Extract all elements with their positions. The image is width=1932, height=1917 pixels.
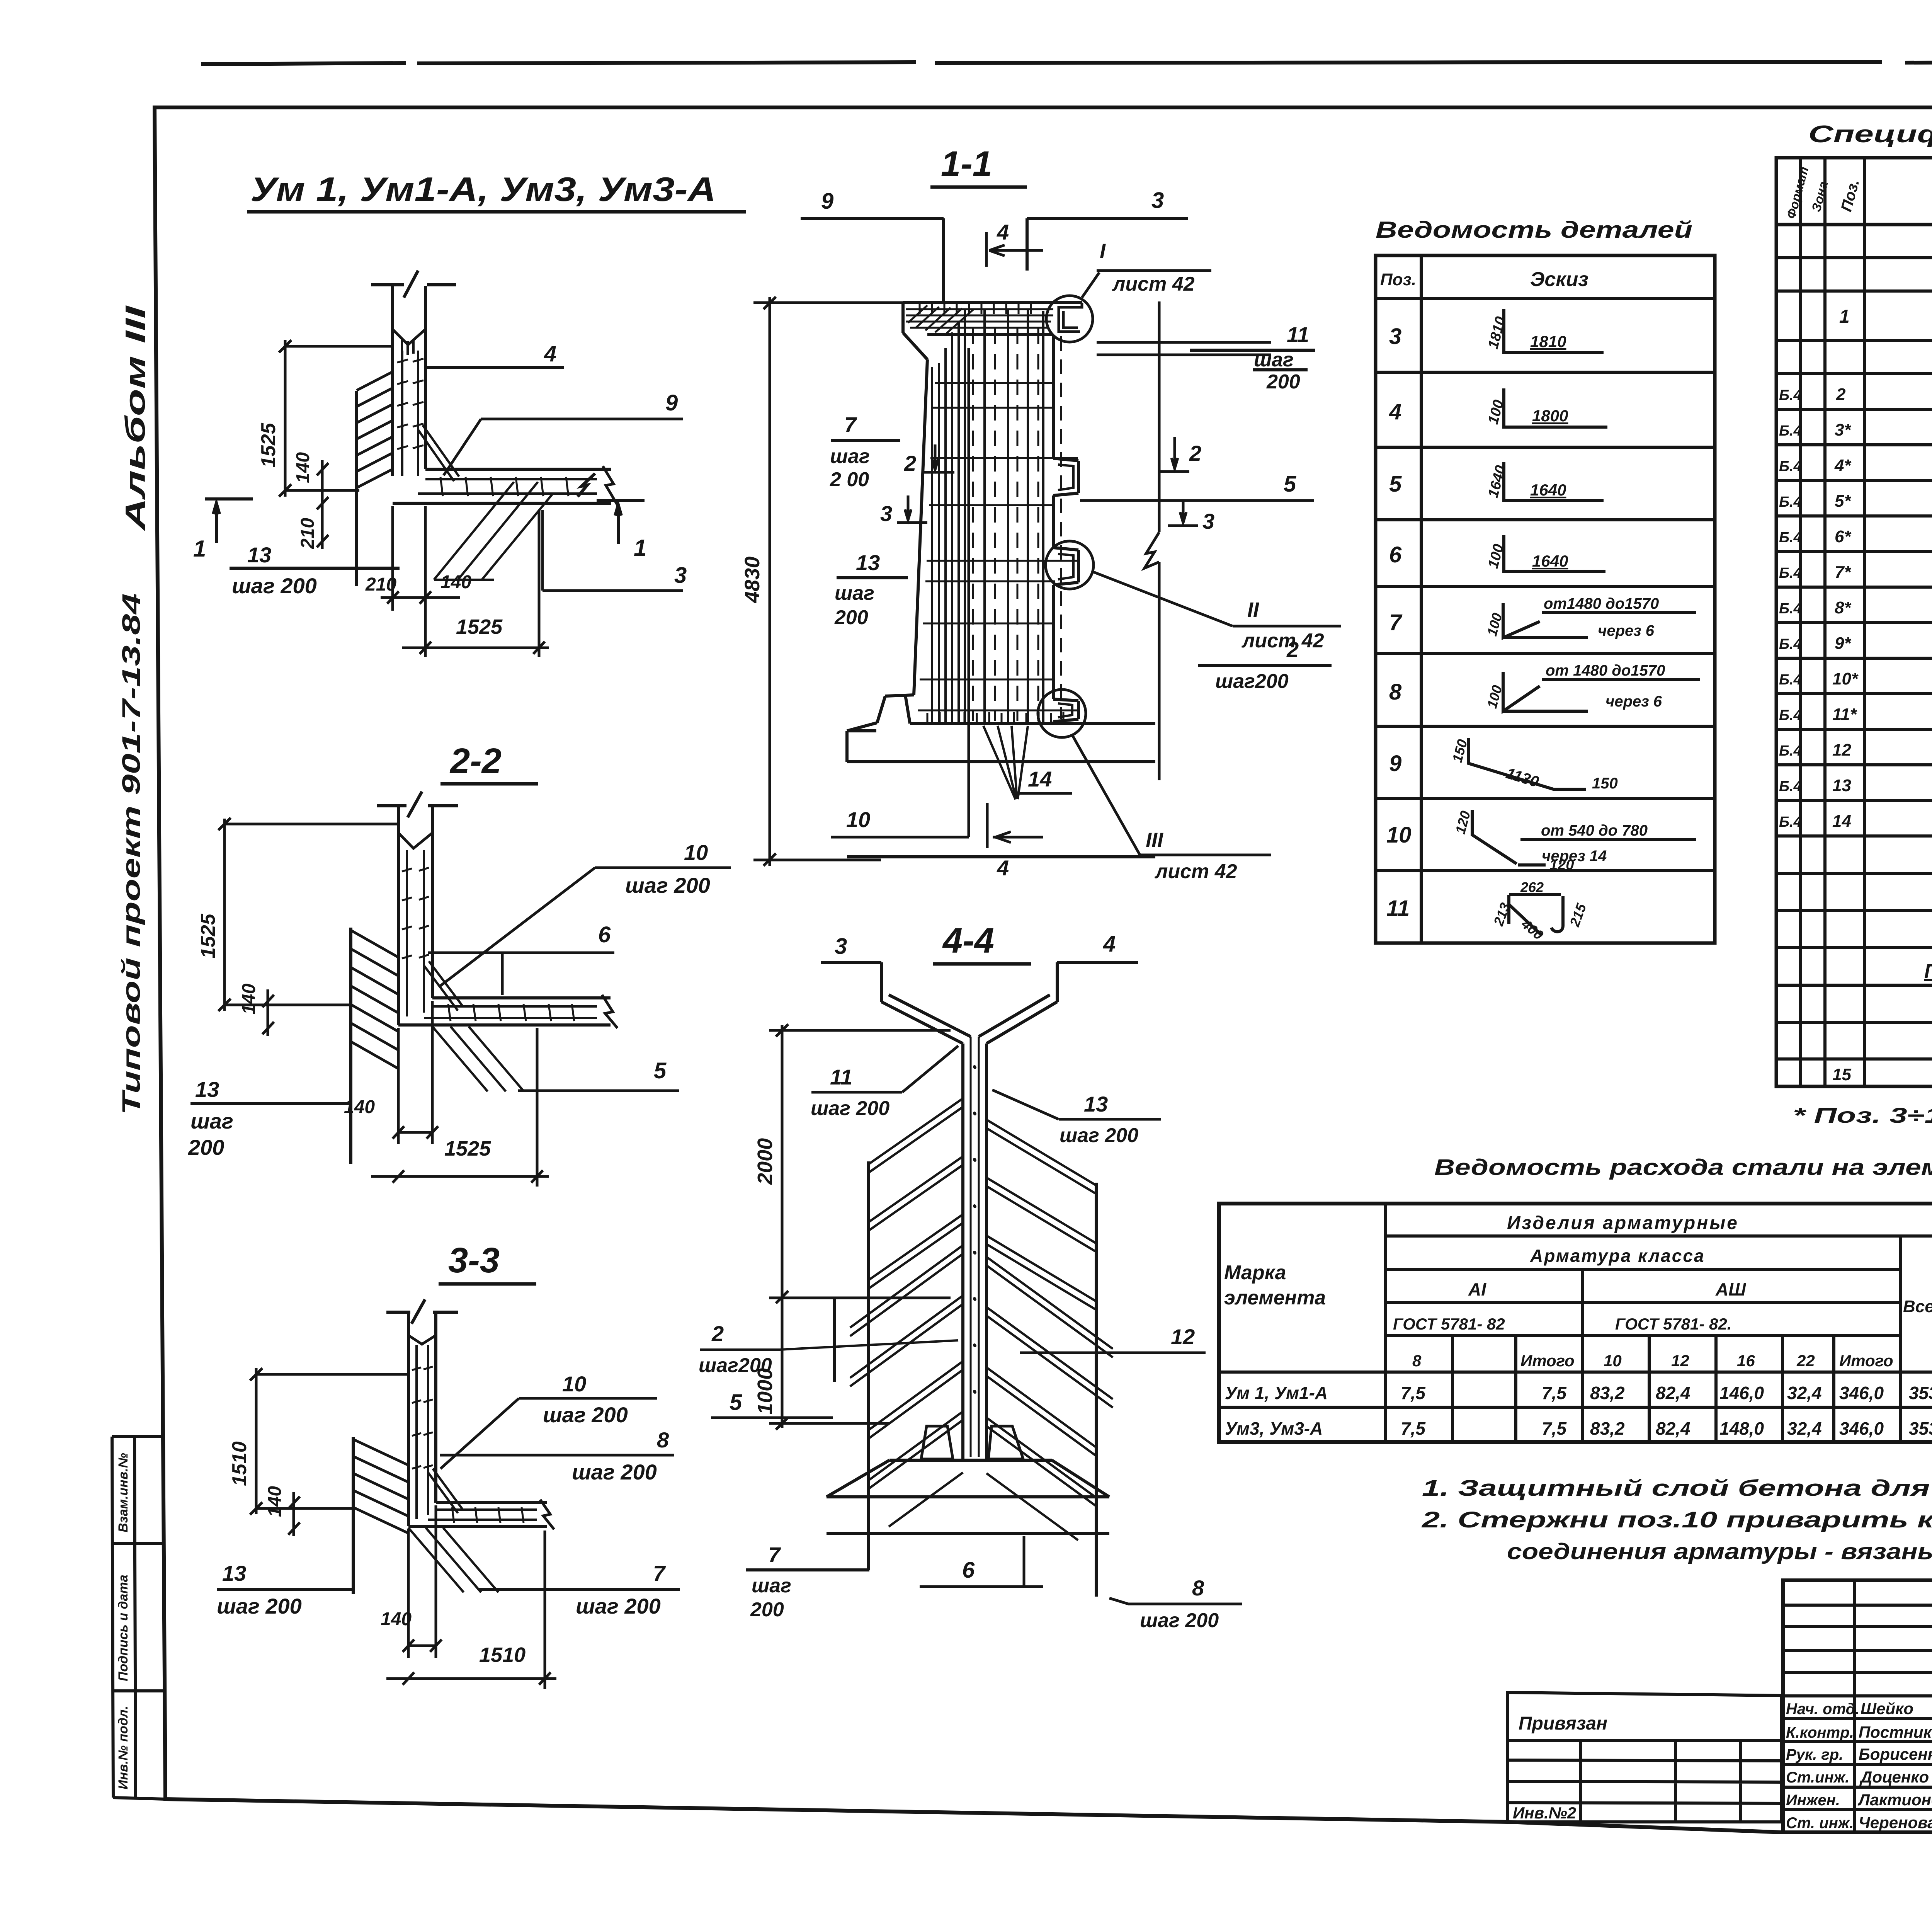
svg-text:шаг 200: шаг 200 xyxy=(543,1403,628,1427)
svg-text:через 6: через 6 xyxy=(1598,622,1655,639)
svg-text:15: 15 xyxy=(1832,1065,1851,1084)
right outline (4-4) xyxy=(1095,1183,1098,1597)
dim 1525 vertical 2-2 xyxy=(218,818,398,1011)
svg-text:3: 3 xyxy=(835,934,847,959)
monolith boundary line xyxy=(349,928,352,1164)
svg-text:АШ: АШ xyxy=(1715,1279,1746,1299)
svg-text:82,4: 82,4 xyxy=(1656,1418,1690,1439)
parts list row numbers xyxy=(1386,324,1412,921)
svg-text:1640: 1640 xyxy=(1532,552,1568,570)
svg-text:Итого: Итого xyxy=(1839,1352,1893,1370)
svg-text:346,0: 346,0 xyxy=(1839,1418,1884,1439)
title block names xyxy=(1857,1699,1932,1832)
diagonal bars below slab xyxy=(432,1027,524,1091)
svg-text:82,4: 82,4 xyxy=(1656,1383,1690,1403)
svg-text:4: 4 xyxy=(1389,399,1401,424)
wall right face with keys xyxy=(1053,335,1078,724)
svg-text:346,0: 346,0 xyxy=(1839,1383,1884,1403)
wall outer edges xyxy=(398,807,432,1025)
slab inner rebar lines xyxy=(418,479,597,494)
sketch pos.6 xyxy=(1504,535,1605,571)
corner diagonal tie xyxy=(428,1469,463,1513)
svg-text:шаг 200: шаг 200 xyxy=(232,574,317,598)
dim 1510 vertical 3-3 xyxy=(250,1368,408,1515)
upper chevrons left xyxy=(869,1098,963,1289)
lower chevrons right xyxy=(986,1257,1113,1540)
svg-text:14: 14 xyxy=(1832,812,1851,831)
svg-text:8*: 8* xyxy=(1835,598,1851,617)
slab bars to the right xyxy=(1097,342,1271,355)
far face dashed line xyxy=(1060,336,1062,719)
wall cap outline (1-1) xyxy=(903,303,1082,359)
detail circle III xyxy=(1038,690,1086,737)
footing left step xyxy=(847,695,914,731)
svg-text:от 1480 до1570: от 1480 до1570 xyxy=(1546,662,1665,679)
joint key comb xyxy=(402,340,413,355)
wall inner rebar lines xyxy=(417,1345,428,1519)
upper chevrons right xyxy=(986,1120,1096,1310)
svg-text:2: 2 xyxy=(1286,637,1299,662)
detail circle I xyxy=(1046,296,1093,342)
steel table verticals xyxy=(1386,1204,1932,1442)
slab outer edges xyxy=(408,1503,547,1526)
svg-text:К.контр.: К.контр. xyxy=(1786,1724,1854,1741)
svg-text:7: 7 xyxy=(844,412,857,437)
dim 140 vertical xyxy=(317,460,328,514)
svg-text:14: 14 xyxy=(1028,767,1052,791)
svg-text:Рук. гр.: Рук. гр. xyxy=(1786,1746,1843,1763)
svg-text:1525: 1525 xyxy=(444,1137,491,1160)
svg-text:3: 3 xyxy=(1151,188,1164,213)
svg-text:шаг200: шаг200 xyxy=(1215,670,1289,693)
wall break mark top xyxy=(371,271,456,298)
heading 3-3 underline xyxy=(439,1282,536,1286)
slab end break xyxy=(603,466,618,506)
svg-text:2: 2 xyxy=(904,451,916,475)
svg-text:АI: АI xyxy=(1468,1279,1486,1299)
wall left face xyxy=(914,359,927,695)
rebar ticks xyxy=(402,868,429,958)
svg-text:Черенова: Черенова xyxy=(1859,1813,1932,1832)
svg-text:Инв.№ подл.: Инв.№ подл. xyxy=(116,1706,131,1789)
wall inner rebar lines xyxy=(407,850,424,1016)
svg-text:6: 6 xyxy=(1389,542,1402,567)
svg-text:шаг200: шаг200 xyxy=(699,1354,772,1377)
svg-text:Альбом III: Альбом III xyxy=(120,305,151,531)
title block revision grid horizontals xyxy=(1783,1605,1932,1696)
svg-text:1525: 1525 xyxy=(197,913,219,958)
svg-text:Ведомость расхода стали: Ведомость расхода стали на элемент, кг. xyxy=(1434,1155,1932,1180)
detail circle II xyxy=(1046,541,1094,589)
svg-text:Б.4: Б.4 xyxy=(1779,743,1802,759)
steel table data row 1 xyxy=(1225,1383,1932,1403)
svg-text:12: 12 xyxy=(1832,741,1851,759)
sketch pos.11 xyxy=(1509,895,1563,935)
svg-text:Взам.инв.№: Взам.инв.№ xyxy=(116,1453,131,1532)
svg-text:3: 3 xyxy=(674,563,687,588)
svg-text:лист 42: лист 42 xyxy=(1112,273,1195,295)
dim 140 vertical 3-3 xyxy=(288,1492,300,1536)
svg-text:9*: 9* xyxy=(1835,634,1851,653)
svg-text:10: 10 xyxy=(846,807,870,832)
svg-text:Ведомость деталей: Ведомость деталей xyxy=(1376,217,1692,243)
svg-text:соединения арматуры - вязаны: соединения арматуры - вязаные. xyxy=(1507,1539,1932,1564)
corner diagonal tie xyxy=(418,425,459,481)
hatch band diagonals xyxy=(351,930,398,1069)
horizontal bars xyxy=(918,383,1078,710)
svg-text:32,4: 32,4 xyxy=(1787,1418,1822,1439)
sheet outer top edge line xyxy=(201,61,1932,64)
diagonal bars below slab xyxy=(408,1528,498,1592)
bottom slab line xyxy=(847,855,1155,858)
svg-text:Б.4: Б.4 xyxy=(1779,672,1802,688)
spec row lines xyxy=(1776,258,1932,374)
sketch pos.9 xyxy=(1468,738,1586,789)
svg-text:200: 200 xyxy=(750,1599,784,1621)
svg-text:Инжен.: Инжен. xyxy=(1786,1792,1840,1809)
svg-text:12: 12 xyxy=(1671,1352,1689,1370)
svg-text:Б.4: Б.4 xyxy=(1779,707,1802,724)
svg-text:4830: 4830 xyxy=(741,557,764,603)
svg-text:5: 5 xyxy=(1284,472,1296,497)
central column (4-4) xyxy=(963,1044,986,1460)
sketch pos.5 xyxy=(1504,462,1604,501)
svg-text:1-1: 1-1 xyxy=(941,144,992,184)
svg-text:13: 13 xyxy=(247,543,271,567)
heading 2-2 underline xyxy=(440,782,538,786)
dim 140 vertical 2-2 xyxy=(262,989,274,1036)
heading 1-1 underline xyxy=(930,186,1027,189)
svg-text:140: 140 xyxy=(344,1097,375,1117)
svg-text:лист 42: лист 42 xyxy=(1154,860,1237,883)
svg-text:Всего: Всего xyxy=(1903,1297,1932,1316)
svg-text:3: 3 xyxy=(880,501,892,526)
section mark 1 left xyxy=(205,499,253,543)
svg-text:150: 150 xyxy=(1592,775,1618,792)
steel table horizontals xyxy=(1219,1236,1932,1407)
svg-text:от 540 до 780: от 540 до 780 xyxy=(1541,822,1648,839)
svg-text:Б.4: Б.4 xyxy=(1779,423,1802,439)
wall top break xyxy=(408,1335,436,1344)
svg-text:4-4: 4-4 xyxy=(942,921,994,960)
svg-text:4: 4 xyxy=(997,220,1009,244)
svg-text:200: 200 xyxy=(188,1135,224,1159)
parts list row lines xyxy=(1376,299,1715,871)
title block verticals xyxy=(1854,1580,1932,1832)
svg-text:8: 8 xyxy=(1192,1576,1204,1600)
svg-text:140: 140 xyxy=(239,984,259,1015)
svg-text:шаг: шаг xyxy=(1254,349,1294,371)
svg-text:12: 12 xyxy=(1171,1325,1195,1349)
svg-text:Типовой проект 901-7-13.84: Типовой проект 901-7-13.84 xyxy=(117,593,145,1115)
svg-text:3-3: 3-3 xyxy=(448,1241,500,1280)
steel table outer border xyxy=(1219,1204,1932,1442)
svg-text:Доценко: Доценко xyxy=(1859,1768,1929,1786)
svg-text:7: 7 xyxy=(653,1561,666,1585)
svg-text:от1480 до1570: от1480 до1570 xyxy=(1544,595,1659,612)
right boundary line with break xyxy=(1145,301,1159,780)
footing trapezoids (4-4) xyxy=(921,1426,1023,1459)
svg-text:7,5: 7,5 xyxy=(1542,1383,1567,1403)
corner diagonal bars xyxy=(434,482,553,580)
parts list outer border xyxy=(1376,255,1715,943)
svg-text:Спецификация монолитных учас: Спецификация монолитных участков xyxy=(1808,121,1932,148)
footing slab (4-4) xyxy=(827,1460,1109,1534)
wall break mark top xyxy=(377,792,458,817)
svg-text:1525: 1525 xyxy=(456,615,503,638)
svg-text:8: 8 xyxy=(1389,679,1402,705)
svg-text:Б.4: Б.4 xyxy=(1779,814,1802,830)
slab inner rebar lines xyxy=(424,1006,597,1018)
svg-text:Изделия арматурные: Изделия арматурные xyxy=(1507,1213,1739,1233)
title block outer border xyxy=(1783,1580,1932,1832)
svg-text:шаг 200: шаг 200 xyxy=(625,873,710,897)
svg-text:1: 1 xyxy=(193,536,206,562)
привязан table border xyxy=(1507,1692,1781,1822)
svg-text:III: III xyxy=(1146,829,1163,852)
slab stirrups xyxy=(452,1507,524,1523)
svg-text:2 00: 2 00 xyxy=(830,468,869,491)
svg-text:13: 13 xyxy=(1832,776,1851,795)
svg-text:шаг 200: шаг 200 xyxy=(576,1594,661,1618)
cap key bracket xyxy=(1059,303,1082,332)
internal vertical bars dashed xyxy=(973,329,1038,721)
svg-text:8: 8 xyxy=(657,1428,669,1452)
spec table outer border xyxy=(1776,158,1932,1086)
svg-text:1640: 1640 xyxy=(1530,481,1566,499)
svg-text:1525: 1525 xyxy=(257,422,280,468)
column inner rebar xyxy=(971,1037,979,1457)
svg-text:Арматура класса: Арматура класса xyxy=(1530,1246,1705,1266)
svg-text:шаг 200: шаг 200 xyxy=(1140,1609,1219,1632)
svg-text:200: 200 xyxy=(834,606,868,629)
column rebar dots xyxy=(975,1067,975,1392)
dim 4830 (1-1) xyxy=(753,297,903,866)
svg-text:Привязан: Привязан xyxy=(1519,1713,1607,1734)
svg-text:шаг: шаг xyxy=(835,582,874,604)
svg-text:Борисенко: Борисенко xyxy=(1859,1745,1932,1763)
svg-text:Итого: Итого xyxy=(1520,1352,1575,1370)
rebar tick marks xyxy=(397,359,423,449)
rebar ticks xyxy=(412,1367,433,1469)
heading 4-4 underline xyxy=(933,962,1031,966)
svg-text:1: 1 xyxy=(634,535,646,561)
svg-text:Марка: Марка xyxy=(1224,1262,1286,1284)
svg-text:лист 42: лист 42 xyxy=(1241,630,1324,652)
svg-text:6*: 6* xyxy=(1835,527,1851,546)
svg-text:1. Защитный слой бетона для: 1. Защитный слой бетона для рабочей арма… xyxy=(1422,1476,1932,1501)
svg-text:11: 11 xyxy=(1287,322,1309,347)
svg-text:353,5: 353,5 xyxy=(1909,1418,1932,1439)
sketch pos.7 xyxy=(1503,603,1696,638)
svg-text:Б.4: Б.4 xyxy=(1779,458,1802,475)
svg-text:Подпись и дата: Подпись и дата xyxy=(116,1575,131,1681)
svg-text:Б.4: Б.4 xyxy=(1779,565,1802,581)
cap comb ticks xyxy=(920,304,1031,314)
hatch band diagonals xyxy=(357,372,393,488)
wall outer edges xyxy=(408,1313,436,1526)
svg-text:146,0: 146,0 xyxy=(1719,1383,1764,1403)
svg-text:Б.4: Б.4 xyxy=(1779,636,1802,652)
svg-text:3*: 3* xyxy=(1835,421,1851,439)
svg-text:4*: 4* xyxy=(1834,456,1851,475)
slab outer edges xyxy=(398,998,611,1025)
svg-text:Б.4: Б.4 xyxy=(1779,387,1802,403)
svg-text:1510: 1510 xyxy=(479,1643,526,1667)
svg-text:210: 210 xyxy=(298,518,318,549)
sketch pos.3 xyxy=(1504,309,1604,352)
svg-text:11*: 11* xyxy=(1832,705,1857,724)
monolith boundary line xyxy=(352,1437,355,1594)
slab stirrup marks xyxy=(440,477,568,496)
svg-text:Ум 1, Ум1-А, Ум3, Ум3-А: Ум 1, Ум1-А, Ум3, Ум3-А xyxy=(250,170,716,208)
sketch pos.10 xyxy=(1472,810,1696,865)
cap corner hatch xyxy=(908,305,974,333)
svg-text:5: 5 xyxy=(1389,472,1402,497)
svg-text:16: 16 xyxy=(1737,1352,1755,1370)
internal vertical bars solid xyxy=(932,309,1043,725)
svg-text:5: 5 xyxy=(654,1058,667,1083)
footing xyxy=(847,724,1155,762)
svg-text:7: 7 xyxy=(768,1542,781,1567)
svg-text:4: 4 xyxy=(544,341,556,366)
svg-text:7: 7 xyxy=(1389,610,1403,635)
svg-text:Инв.№2: Инв.№2 xyxy=(1513,1804,1576,1822)
wall outer edges (plan) xyxy=(393,286,425,476)
left outline (4-4) xyxy=(834,1161,869,1570)
heading underline xyxy=(247,210,746,214)
svg-text:ГОСТ 5781- 82.: ГОСТ 5781- 82. xyxy=(1615,1315,1731,1333)
svg-text:Поз.: Поз. xyxy=(1380,270,1416,289)
svg-text:II: II xyxy=(1247,598,1259,621)
svg-text:32,4: 32,4 xyxy=(1787,1383,1822,1403)
svg-text:140: 140 xyxy=(293,452,313,483)
left stamp column cells xyxy=(112,1437,165,1799)
svg-text:2. Стержни поз.10 приварить: 2. Стержни поз.10 приварить к стержням п… xyxy=(1422,1507,1932,1532)
title block roles xyxy=(1786,1701,1859,1832)
svg-text:Ум 1, Ум1-А: Ум 1, Ум1-А xyxy=(1225,1383,1328,1403)
slab stirrups xyxy=(448,1004,574,1021)
cap horizontal bars xyxy=(906,309,1053,328)
svg-text:1510: 1510 xyxy=(228,1441,251,1486)
svg-text:2-2: 2-2 xyxy=(449,741,502,781)
svg-text:2: 2 xyxy=(1836,385,1846,404)
svg-text:7,5: 7,5 xyxy=(1542,1418,1567,1439)
svg-text:13: 13 xyxy=(195,1077,219,1102)
svg-text:Постников: Постников xyxy=(1859,1723,1932,1741)
svg-text:Б.4: Б.4 xyxy=(1779,529,1802,546)
svg-text:шаг: шаг xyxy=(190,1109,233,1133)
svg-text:11: 11 xyxy=(830,1065,852,1089)
hatch band diagonals xyxy=(353,1439,408,1533)
svg-text:3: 3 xyxy=(1389,324,1401,349)
svg-text:элемента: элемента xyxy=(1224,1287,1326,1309)
slab end break xyxy=(540,1500,554,1529)
svg-text:1: 1 xyxy=(1839,306,1850,327)
svg-text:8: 8 xyxy=(1412,1352,1422,1370)
dim 2000 (4-4) xyxy=(769,1024,951,1303)
sketch pos.8 xyxy=(1503,672,1700,711)
svg-text:120: 120 xyxy=(1549,857,1574,873)
svg-text:10: 10 xyxy=(1386,822,1412,848)
svg-text:140: 140 xyxy=(440,572,471,592)
spec rows 2..14 xyxy=(1779,384,1932,831)
svg-text:10: 10 xyxy=(684,840,708,865)
svg-text:7,5: 7,5 xyxy=(1401,1383,1426,1403)
section mark 1 right xyxy=(578,473,645,544)
slab outer edges (plan) xyxy=(393,469,611,503)
corner diagonal tie xyxy=(424,961,463,1011)
svg-text:9: 9 xyxy=(665,390,678,415)
svg-text:10: 10 xyxy=(562,1372,586,1396)
slab end break xyxy=(602,995,617,1028)
svg-text:13: 13 xyxy=(222,1561,246,1585)
svg-text:Ум3, Ум3-А: Ум3, Ум3-А xyxy=(1225,1418,1323,1439)
svg-text:3: 3 xyxy=(1202,509,1214,533)
svg-text:4: 4 xyxy=(1103,931,1116,957)
svg-text:Б.4: Б.4 xyxy=(1779,778,1802,795)
svg-text:2000: 2000 xyxy=(753,1138,777,1185)
svg-text:шаг 200: шаг 200 xyxy=(217,1594,302,1618)
svg-text:* Поз. 3÷11 - см. Ведомост: * Поз. 3÷11 - см. Ведомость деталей . xyxy=(1793,1103,1932,1127)
wall break mark top xyxy=(386,1299,458,1324)
spec header bottom line xyxy=(1776,223,1932,226)
svg-text:13: 13 xyxy=(1084,1092,1108,1116)
dim 210 vertical xyxy=(317,514,328,549)
dim 1525 vertical xyxy=(279,340,393,497)
wall top V-break xyxy=(393,329,425,345)
svg-text:200: 200 xyxy=(1266,371,1300,393)
svg-text:Переменные данные для испол: Переменные данные для исполнения xyxy=(1924,960,1932,982)
svg-text:Б.4: Б.4 xyxy=(1779,601,1802,617)
wall top V-break xyxy=(398,833,432,848)
funnel V (4-4) xyxy=(881,995,1057,1044)
svg-text:353,5: 353,5 xyxy=(1909,1383,1932,1403)
key inner brackets xyxy=(1058,465,1073,717)
svg-text:7,5: 7,5 xyxy=(1401,1418,1426,1439)
svg-text:ГОСТ 5781- 82: ГОСТ 5781- 82 xyxy=(1393,1315,1505,1333)
svg-text:1800: 1800 xyxy=(1532,407,1568,425)
svg-text:11: 11 xyxy=(1386,896,1410,921)
svg-text:Б.4: Б.4 xyxy=(1779,494,1802,510)
svg-text:шаг 200: шаг 200 xyxy=(811,1097,889,1120)
svg-text:13: 13 xyxy=(856,550,880,575)
svg-text:2: 2 xyxy=(1189,441,1201,465)
sketch pos.4 xyxy=(1504,388,1607,427)
svg-text:Ст. инж.: Ст. инж. xyxy=(1786,1815,1854,1832)
svg-text:Нач. отд.: Нач. отд. xyxy=(1786,1701,1859,1718)
svg-text:шаг 200: шаг 200 xyxy=(572,1460,657,1484)
spec table verticals xyxy=(1800,158,1932,1086)
svg-text:Ст.инж.: Ст.инж. xyxy=(1786,1769,1849,1786)
monolith boundary line xyxy=(355,391,358,586)
svg-text:4: 4 xyxy=(997,856,1009,880)
steel table data row 2 xyxy=(1225,1418,1932,1439)
svg-text:шаг 200: шаг 200 xyxy=(1060,1124,1138,1147)
svg-text:22: 22 xyxy=(1796,1352,1815,1370)
svg-text:9: 9 xyxy=(1389,751,1401,776)
svg-text:262: 262 xyxy=(1520,879,1544,895)
svg-text:шаг: шаг xyxy=(830,445,870,468)
wall inner rebar lines xyxy=(402,351,418,476)
svg-text:5*: 5* xyxy=(1835,492,1851,511)
svg-text:Шейко: Шейко xyxy=(1861,1699,1913,1718)
slab inner rebar lines xyxy=(428,1510,537,1520)
svg-text:шаг: шаг xyxy=(752,1575,791,1597)
svg-text:Эскиз: Эскиз xyxy=(1530,268,1588,291)
svg-text:2: 2 xyxy=(711,1321,724,1346)
svg-text:10*: 10* xyxy=(1832,669,1859,688)
